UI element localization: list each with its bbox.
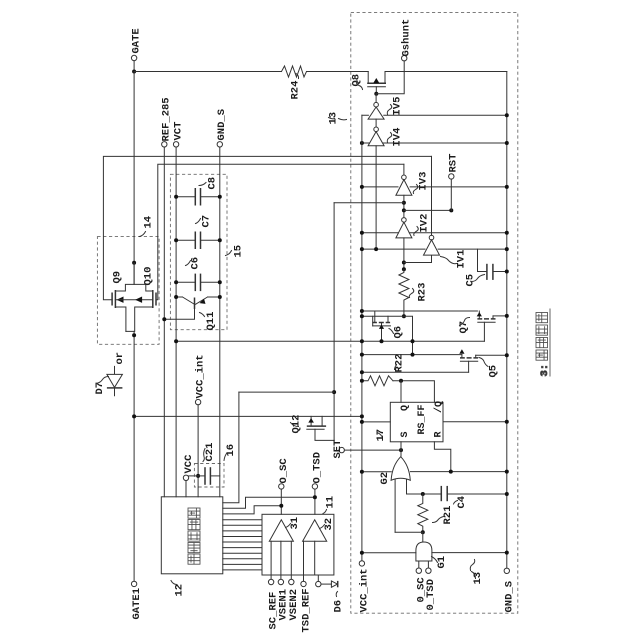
dashed box 15 <box>170 174 227 329</box>
wire left bus X=361.4 <box>361 115 363 561</box>
dashed box 14 <box>97 237 159 345</box>
wire VCC_int stub down <box>197 405 199 497</box>
node IV3 rail left <box>360 185 364 189</box>
node 310.5 bus <box>360 309 364 313</box>
svg-text:VCC: VCC <box>183 454 195 474</box>
wire RST stub <box>450 179 452 210</box>
svg-text:Q6: Q6 <box>393 326 405 339</box>
svg-text:14: 14 <box>143 216 155 229</box>
capacitor C21 <box>198 467 220 485</box>
inverter IV1 <box>424 156 440 255</box>
wire GATE1 vertical (GATE to GATE1) <box>133 72 135 582</box>
wire G1 left side from bus <box>362 552 416 554</box>
node C6 right <box>218 280 222 284</box>
wire long Y=415.9 GATE1 to bus (through Q12) <box>134 415 362 417</box>
resistor R24 <box>282 66 307 77</box>
wire O_SC stem <box>280 489 282 514</box>
wire IV2 input rail Y=232.3 <box>362 232 507 234</box>
dashed box 16 <box>194 464 224 488</box>
node G2right bus <box>505 470 509 474</box>
wire G1 output stem <box>422 532 424 542</box>
svg-text:R: R <box>434 431 445 437</box>
diode D7 <box>107 366 123 395</box>
node riser/391.6 <box>332 390 336 394</box>
diode D6 <box>321 581 338 587</box>
wire GATE net: terminal stub <box>133 61 135 72</box>
svg-text:GND_S: GND_S <box>216 109 228 141</box>
node IV2 rail left <box>360 231 364 235</box>
svg-text:Q11: Q11 <box>205 312 217 331</box>
node C8 left <box>174 195 178 199</box>
node C8 right <box>218 195 222 199</box>
wire jog A to O_TSD <box>223 497 315 508</box>
resistor R23 <box>399 269 409 316</box>
gate G1 (AND) <box>416 542 432 561</box>
svg-text:C6: C6 <box>190 257 202 270</box>
transistor Q5 <box>459 349 507 372</box>
terminal circle 0_TSD <box>426 568 431 573</box>
node Q11 emitter <box>218 295 222 299</box>
box 12 current source <box>161 497 223 574</box>
wire node rail Y=248.6 <box>362 248 507 250</box>
terminal circle SC_REF <box>268 579 273 584</box>
svg-text:C7: C7 <box>201 215 213 228</box>
wire S pin stem to G2 output <box>400 442 402 457</box>
node rail248 right <box>505 247 509 251</box>
svg-text:C5: C5 <box>465 274 477 287</box>
capacitor C4 <box>423 486 507 501</box>
node R21 bottom <box>421 530 425 534</box>
node stem/202 <box>402 201 406 205</box>
svg-text:R24: R24 <box>290 81 302 100</box>
node 415.9 bus <box>360 414 364 418</box>
node 371.7 bus <box>360 370 364 374</box>
terminal circle VCC_int top <box>195 399 200 404</box>
wire RS_FF left pin <box>362 421 390 423</box>
wire to IV1 input <box>404 255 432 262</box>
node 315.8 bus <box>360 314 364 318</box>
svg-text:R21: R21 <box>442 506 454 525</box>
node IV4 stem join <box>374 247 378 251</box>
svg-text:VCC_int: VCC_int <box>359 568 371 612</box>
wire IV3 input rail Y=186.4 <box>362 186 507 188</box>
svg-text:C21: C21 <box>204 443 216 462</box>
transistor Q7 <box>477 311 507 341</box>
node C4 left <box>421 492 425 496</box>
transistor Q9 <box>112 263 153 332</box>
terminal circle O_TSD <box>312 484 317 489</box>
node Q8 gate junction <box>374 92 378 96</box>
svg-text:R22: R22 <box>394 354 406 373</box>
node right pin bus <box>505 420 509 424</box>
terminal circle VCC <box>183 475 188 480</box>
transistor Q10 <box>126 284 156 331</box>
svg-text:RST: RST <box>448 154 460 173</box>
svg-text:3:: 3: <box>539 364 551 377</box>
capacitor C5 <box>478 249 507 280</box>
svg-text:Q5: Q5 <box>488 365 500 378</box>
node 415.9 GATE1 <box>132 414 136 418</box>
wire IV2 input stem <box>403 238 405 269</box>
svg-text:RS_FF: RS_FF <box>417 404 428 434</box>
node 340 VCT <box>174 339 178 343</box>
gate G2 (OR) <box>391 457 410 481</box>
node R jog rail <box>449 470 453 474</box>
node R22 left bus <box>360 379 364 383</box>
inverter IV5 <box>368 94 384 119</box>
wire G2 input left from G1 node <box>394 479 396 532</box>
wire IV5 input rail Y=114.7 <box>362 114 507 116</box>
svg-text:Gshunt: Gshunt <box>401 19 413 57</box>
terminal circle 0_SC <box>416 568 421 573</box>
svg-text:O_SC: O_SC <box>278 458 290 484</box>
svg-text:0_TSD: 0_TSD <box>425 579 437 611</box>
svg-text:S: S <box>400 431 411 437</box>
wire IV3 input stem <box>403 195 405 217</box>
node Q5 drain bus <box>505 353 509 357</box>
node IV4 rail left <box>360 141 364 145</box>
svg-text:TSD_REF: TSD_REF <box>301 588 313 632</box>
node C7 left <box>174 238 178 242</box>
comparator block 11 <box>262 514 334 575</box>
wire Y=310.5 bus to Q7 <box>362 310 478 312</box>
wire comparator input stems <box>271 541 315 575</box>
node Q11 collector <box>174 295 178 299</box>
svg-text:C4: C4 <box>456 496 468 509</box>
node 354.1 riser412 <box>411 353 415 357</box>
svg-text:VCC_int: VCC_int <box>195 354 207 398</box>
svg-text:R23: R23 <box>417 283 429 302</box>
node stem/210 <box>402 208 406 212</box>
terminal circle VSEN2 <box>289 579 294 584</box>
node R22/Q pin <box>399 379 403 383</box>
node Q6 body on 340.7 <box>380 339 384 343</box>
wire Q5 gate Y=371.7 <box>362 371 469 373</box>
node C4 bus <box>505 492 509 496</box>
svg-text:C8: C8 <box>207 177 219 190</box>
svg-text:IV3: IV3 <box>418 172 430 191</box>
terminal VCT <box>173 142 178 147</box>
node 354.1 bus <box>360 353 364 357</box>
wire R pin jog <box>434 442 450 472</box>
svg-text:GND_S: GND_S <box>504 581 516 613</box>
node IV3 rail right <box>505 185 509 189</box>
wire GATE horizontal to R24 <box>134 71 281 73</box>
wire Q pin riser <box>400 381 402 403</box>
wire GND_S vertical into current source box <box>219 147 221 497</box>
svg-text:Q: Q <box>400 405 411 411</box>
svg-text:SET: SET <box>332 440 344 459</box>
capacitor C8 <box>176 188 220 206</box>
node RST junction <box>449 208 453 212</box>
node riser412 on 340.7 <box>411 339 415 343</box>
wire jog B to O_SC <box>223 506 281 514</box>
node Q11 base / REF line <box>162 317 166 321</box>
terminal SET <box>339 447 344 452</box>
terminal circle VSEN1 <box>278 579 283 584</box>
node C7 right <box>218 238 222 242</box>
resistor R22 <box>362 376 393 386</box>
node Q9Q10 bottom <box>132 333 136 337</box>
op-amp 31 <box>269 520 293 542</box>
node 340 bus <box>360 339 364 343</box>
wire Y=315.8 Q6 gate / R23 bottom <box>362 316 413 354</box>
terminal circle VCC_int bottom <box>359 561 364 566</box>
wire R24 to right bus corner <box>307 71 507 73</box>
wire G1 output node to G2 left input <box>395 531 423 533</box>
terminal circle O_SC <box>279 484 284 489</box>
terminal circle Gshunt <box>402 56 407 61</box>
node C6 left <box>174 280 178 284</box>
wire Q12 riser X=333.6 <box>333 203 335 441</box>
resistor R21 <box>418 494 428 532</box>
node R23 bottom <box>402 314 406 318</box>
node IV2in/IV1in <box>402 261 406 265</box>
svg-text:12: 12 <box>174 584 186 597</box>
terminal circle D6 input <box>316 581 321 586</box>
label 3：保護回路 pseudo <box>536 309 551 377</box>
svg-text:15: 15 <box>233 245 245 258</box>
terminal REF_285 <box>162 142 167 147</box>
terminal circle TSD_REF <box>301 581 306 586</box>
svg-text:IV1: IV1 <box>456 250 468 269</box>
inverter IV4 <box>368 119 384 146</box>
wire R22 right to /Q riser <box>393 381 434 403</box>
node G2left bus <box>360 470 364 474</box>
wire to RST <box>404 209 451 211</box>
node G1right bus <box>505 551 509 555</box>
capacitor C7 <box>176 232 220 250</box>
node O_SC <box>279 504 283 508</box>
transistor Q8 <box>367 72 386 94</box>
svg-text:or: or <box>114 352 126 365</box>
svg-text:Q9: Q9 <box>112 271 124 284</box>
terminal circle GND_S bottom <box>504 568 509 573</box>
wire Q5 source Y=354.1 <box>362 354 462 356</box>
node SET/S <box>399 448 403 452</box>
op-amp 32 <box>303 520 327 542</box>
wire G1 right side to bus <box>432 552 507 554</box>
svg-text:O_TSD: O_TSD <box>312 452 324 484</box>
wire RS_FF right pin to bus <box>443 421 507 423</box>
wire VCT vertical into current source box <box>175 147 177 497</box>
svg-text:11: 11 <box>325 496 337 509</box>
svg-text:GATE: GATE <box>131 28 143 53</box>
svg-text:Q10: Q10 <box>143 267 155 286</box>
svg-text:REF_285: REF_285 <box>161 97 173 141</box>
label 微小電流源 pseudo-kanji <box>188 508 200 564</box>
node IV4 rail right <box>505 141 509 145</box>
svg-text:IV4: IV4 <box>392 128 404 147</box>
wire G2 left side from bus <box>362 471 391 473</box>
node R23 top <box>402 267 406 271</box>
node rail248 left <box>360 247 364 251</box>
wire REF_285 vertical into current source box <box>163 147 165 497</box>
transistor Q11 <box>164 297 220 319</box>
svg-text:D6: D6 <box>333 600 345 613</box>
svg-text:G2: G2 <box>379 472 391 485</box>
node O_TSD <box>313 495 317 499</box>
node IV2 rail right <box>505 231 509 235</box>
capacitor C6 <box>176 274 220 292</box>
wire /Q long Y=391.6 <box>239 391 334 393</box>
wire O_TSD stem <box>314 489 316 514</box>
leader squiggles <box>296 74 299 79</box>
wire G1 input stubs <box>419 561 429 568</box>
svg-text:D7: D7 <box>94 382 106 395</box>
transistor Q12 <box>307 416 334 440</box>
wire Q9 feed Y=155.9 from IV1 output <box>103 156 431 299</box>
wire Y=202.3 to Q12 riser <box>334 202 404 204</box>
wire VCC stub into box <box>185 481 187 497</box>
svg-text:Q8: Q8 <box>351 74 363 87</box>
terminal circle GATE <box>131 55 136 60</box>
svg-text:GATE1: GATE1 <box>131 588 143 620</box>
wire right bus X=506.3 <box>506 72 508 569</box>
terminal circle GATE1 <box>131 581 136 586</box>
wire IV4 input stem down <box>375 146 377 249</box>
wire input stubs below box <box>271 575 318 581</box>
terminal GND_S top <box>217 142 222 147</box>
node VCC_int/C21 <box>196 474 200 478</box>
wire Q8 gate to Gshunt riser <box>376 61 404 94</box>
node GATE/Q9Q10 top <box>132 261 136 265</box>
svg-text:IV2: IV2 <box>419 214 431 233</box>
wire G2 input right from C4 node <box>407 479 423 494</box>
transistor Q6 <box>372 311 390 341</box>
ladder wires box12 to comparator <box>223 520 262 570</box>
wire VCC to C21 node <box>189 475 198 477</box>
node Q7 drain bus <box>505 314 509 318</box>
dashed box 13 (protection circuit) <box>351 12 518 613</box>
wire VCT to Q7 gate rail Y=340.7 <box>176 340 484 342</box>
svg-text:VSEN2: VSEN2 <box>288 589 300 621</box>
svg-text:Q7: Q7 <box>458 321 470 334</box>
svg-text:IV5: IV5 <box>392 97 404 116</box>
node G1left bus <box>360 551 364 555</box>
inverter IV3 <box>396 164 412 195</box>
node GATE junction <box>132 70 136 74</box>
flip-flop RS_FF box 17 <box>390 402 443 442</box>
wire IV4 input rail Y=142.5 <box>362 142 507 144</box>
node left pin bus <box>360 420 364 424</box>
node on right bus <box>505 113 509 117</box>
wire SET to S stem <box>344 449 401 451</box>
terminal circle RST <box>449 174 454 179</box>
wire Q10 feed Y=163.8 from IV3 output <box>156 164 404 299</box>
svg-text:16: 16 <box>225 444 237 457</box>
wire G2 right side to bus (R pin rail) <box>410 471 506 473</box>
inverter IV2 <box>396 218 412 238</box>
wire X=238.4 down to current source <box>223 392 239 503</box>
svg-text:/Q: /Q <box>433 401 445 413</box>
node C5 bus <box>505 270 509 274</box>
svg-text:VCT: VCT <box>173 122 185 141</box>
